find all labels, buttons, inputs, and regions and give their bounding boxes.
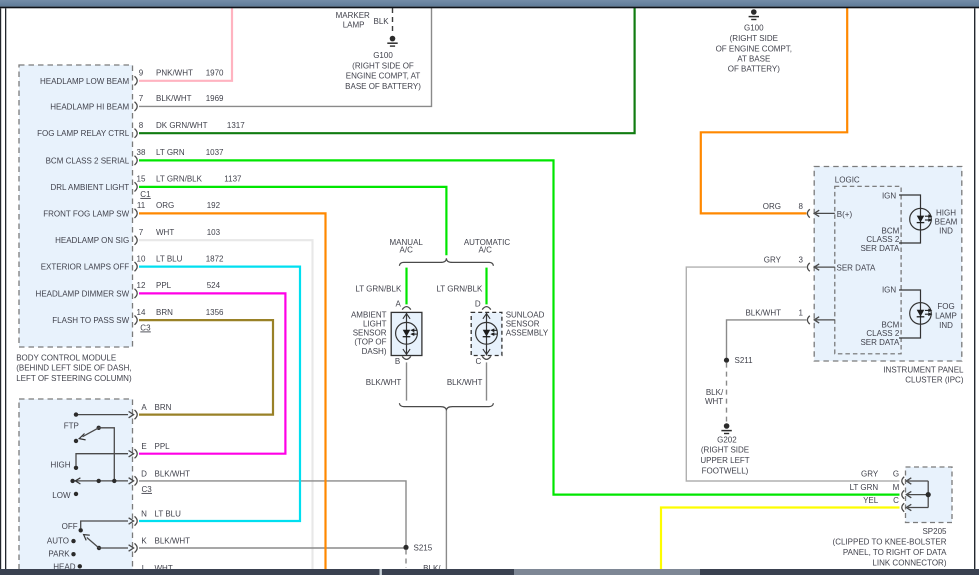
svg-text:A/C: A/C — [479, 246, 493, 255]
svg-text:AMBIENT: AMBIENT — [351, 311, 387, 320]
svg-text:DASH): DASH) — [362, 347, 387, 356]
svg-text:S215: S215 — [414, 543, 433, 552]
svg-text:LT GRN: LT GRN — [850, 483, 879, 492]
svg-text:HEADLAMP LOW BEAM: HEADLAMP LOW BEAM — [40, 77, 130, 86]
svg-text:7: 7 — [139, 228, 144, 237]
svg-text:C3: C3 — [140, 323, 151, 332]
svg-text:FOG: FOG — [937, 302, 954, 311]
svg-text:C3: C3 — [142, 485, 153, 494]
svg-text:(RIGHT SIDE: (RIGHT SIDE — [730, 34, 778, 43]
svg-text:(RIGHT SIDE: (RIGHT SIDE — [701, 446, 749, 455]
svg-text:FLASH TO PASS SW: FLASH TO PASS SW — [52, 316, 129, 325]
svg-text:HEADLAMP DIMMER SW: HEADLAMP DIMMER SW — [36, 289, 130, 298]
svg-text:N: N — [141, 509, 147, 518]
svg-text:SUNLOAD: SUNLOAD — [506, 311, 545, 320]
svg-text:CLUSTER (IPC): CLUSTER (IPC) — [905, 375, 964, 384]
svg-text:BEAM: BEAM — [935, 218, 958, 227]
svg-text:ENGINE COMPT, AT: ENGINE COMPT, AT — [346, 71, 421, 80]
svg-text:LOW: LOW — [52, 491, 71, 500]
svg-text:LIGHT: LIGHT — [363, 320, 387, 329]
svg-text:B(+): B(+) — [837, 210, 853, 219]
svg-text:BLK/WHT: BLK/WHT — [155, 536, 191, 545]
svg-text:10: 10 — [137, 254, 146, 263]
svg-text:LT BLU: LT BLU — [155, 509, 182, 518]
svg-text:ORG: ORG — [763, 202, 781, 211]
svg-text:WHT: WHT — [156, 228, 174, 237]
svg-text:(CLIPPED TO KNEE-BOLSTER: (CLIPPED TO KNEE-BOLSTER — [833, 537, 947, 546]
svg-text:1969: 1969 — [206, 94, 224, 103]
svg-text:GRY: GRY — [764, 256, 782, 265]
svg-text:M: M — [893, 483, 900, 492]
svg-text:7: 7 — [139, 94, 144, 103]
svg-text:K: K — [141, 536, 147, 545]
svg-text:BLK/: BLK/ — [706, 388, 724, 397]
svg-text:WHT: WHT — [705, 397, 723, 406]
svg-text:G100: G100 — [744, 23, 764, 32]
svg-text:FRONT FOG LAMP SW: FRONT FOG LAMP SW — [43, 209, 129, 218]
svg-text:A: A — [396, 300, 402, 309]
svg-text:BRN: BRN — [156, 308, 173, 317]
svg-text:DK GRN/WHT: DK GRN/WHT — [156, 121, 208, 130]
svg-text:BRN: BRN — [155, 403, 172, 412]
svg-text:D: D — [475, 300, 481, 309]
svg-text:FOOTWELL): FOOTWELL) — [702, 466, 749, 475]
svg-text:BLK/WHT: BLK/WHT — [447, 378, 483, 387]
svg-text:FOG LAMP RELAY CTRL: FOG LAMP RELAY CTRL — [37, 129, 130, 138]
svg-text:LOGIC: LOGIC — [835, 175, 860, 184]
svg-text:INSTRUMENT PANEL: INSTRUMENT PANEL — [883, 366, 964, 375]
svg-text:15: 15 — [137, 175, 146, 184]
svg-text:DRL AMBIENT LIGHT: DRL AMBIENT LIGHT — [51, 183, 130, 192]
svg-text:E: E — [141, 442, 146, 451]
svg-text:OF ENGINE COMPT,: OF ENGINE COMPT, — [716, 45, 792, 54]
svg-text:BLK/WHT: BLK/WHT — [745, 309, 781, 318]
svg-text:G100: G100 — [373, 51, 393, 60]
svg-text:PNK/WHT: PNK/WHT — [156, 69, 193, 78]
svg-text:PARK: PARK — [48, 549, 70, 558]
svg-text:8: 8 — [139, 121, 144, 130]
svg-text:1137: 1137 — [224, 175, 242, 184]
svg-text:LT BLU: LT BLU — [156, 254, 183, 263]
svg-text:(RIGHT SIDE OF: (RIGHT SIDE OF — [352, 61, 414, 70]
svg-text:BCM CLASS 2 SERIAL: BCM CLASS 2 SERIAL — [46, 156, 130, 165]
svg-text:EXTERIOR LAMPS OFF: EXTERIOR LAMPS OFF — [41, 263, 130, 272]
svg-text:(BEHIND LEFT SIDE OF DASH,: (BEHIND LEFT SIDE OF DASH, — [16, 364, 131, 373]
svg-text:3: 3 — [798, 256, 803, 265]
svg-text:GRY: GRY — [861, 470, 879, 479]
svg-text:LINK CONNECTOR): LINK CONNECTOR) — [872, 559, 946, 568]
svg-text:G: G — [893, 470, 899, 479]
svg-text:IGN: IGN — [882, 286, 896, 295]
svg-text:IND: IND — [939, 321, 953, 330]
svg-text:IND: IND — [939, 227, 953, 236]
svg-text:CLASS 2: CLASS 2 — [866, 329, 899, 338]
svg-text:1037: 1037 — [206, 148, 224, 157]
svg-text:BCM: BCM — [882, 320, 900, 329]
svg-text:LAMP: LAMP — [935, 311, 957, 320]
svg-text:8: 8 — [798, 202, 803, 211]
svg-text:C: C — [476, 357, 482, 366]
svg-text:PPL: PPL — [156, 281, 172, 290]
svg-text:B: B — [395, 357, 400, 366]
svg-text:LAMP: LAMP — [343, 21, 365, 30]
svg-text:CLASS 2: CLASS 2 — [866, 235, 899, 244]
svg-text:524: 524 — [207, 281, 221, 290]
svg-text:LEFT OF STEERING COLUMN): LEFT OF STEERING COLUMN) — [16, 374, 132, 383]
svg-text:HIGH: HIGH — [936, 209, 956, 218]
svg-text:G202: G202 — [717, 435, 737, 444]
svg-text:SENSOR: SENSOR — [353, 329, 387, 338]
svg-text:ASSEMBLY: ASSEMBLY — [506, 329, 549, 338]
svg-text:BODY CONTROL MODULE: BODY CONTROL MODULE — [16, 353, 116, 362]
svg-text:BCM: BCM — [882, 226, 900, 235]
svg-text:(TOP OF: (TOP OF — [354, 338, 386, 347]
svg-text:AUTO: AUTO — [47, 536, 69, 545]
svg-text:A/C: A/C — [400, 246, 414, 255]
svg-text:S211: S211 — [735, 356, 754, 365]
svg-text:BASE OF BATTERY): BASE OF BATTERY) — [345, 82, 421, 91]
svg-text:FTP: FTP — [64, 422, 79, 431]
svg-text:192: 192 — [207, 201, 221, 210]
svg-text:BLK/WHT: BLK/WHT — [156, 94, 192, 103]
svg-text:1970: 1970 — [206, 69, 224, 78]
svg-text:BLK/WHT: BLK/WHT — [366, 378, 402, 387]
svg-text:UPPER LEFT: UPPER LEFT — [700, 456, 749, 465]
svg-text:OFF: OFF — [62, 522, 78, 531]
svg-text:1872: 1872 — [206, 254, 224, 263]
svg-text:D: D — [141, 469, 147, 478]
svg-text:PPL: PPL — [155, 442, 171, 451]
svg-text:11: 11 — [137, 201, 146, 210]
svg-text:1: 1 — [798, 309, 803, 318]
svg-text:MARKER: MARKER — [336, 11, 370, 20]
svg-text:1356: 1356 — [206, 308, 224, 317]
svg-text:IGN: IGN — [882, 191, 896, 200]
svg-text:LT GRN/BLK: LT GRN/BLK — [156, 175, 203, 184]
svg-text:ORG: ORG — [156, 201, 174, 210]
svg-text:38: 38 — [137, 148, 146, 157]
svg-text:SER DATA: SER DATA — [860, 338, 899, 347]
svg-text:HEADLAMP HI BEAM: HEADLAMP HI BEAM — [50, 102, 129, 111]
svg-text:YEL: YEL — [863, 496, 879, 505]
svg-text:SER DATA: SER DATA — [837, 263, 876, 272]
svg-text:1317: 1317 — [227, 121, 245, 130]
svg-text:BLK: BLK — [374, 17, 390, 26]
svg-text:OF BATTERY): OF BATTERY) — [728, 65, 780, 74]
svg-text:HIGH: HIGH — [51, 461, 71, 470]
svg-text:C: C — [893, 496, 899, 505]
svg-text:A: A — [141, 403, 147, 412]
svg-text:9: 9 — [139, 69, 144, 78]
svg-text:LT GRN/BLK: LT GRN/BLK — [436, 284, 483, 293]
svg-text:HEADLAMP ON SIG: HEADLAMP ON SIG — [55, 236, 129, 245]
svg-text:SENSOR: SENSOR — [506, 320, 540, 329]
svg-text:103: 103 — [207, 228, 221, 237]
svg-text:12: 12 — [137, 281, 146, 290]
svg-text:LT GRN/BLK: LT GRN/BLK — [355, 284, 402, 293]
svg-text:AT BASE: AT BASE — [737, 55, 770, 64]
svg-text:SER DATA: SER DATA — [860, 244, 899, 253]
svg-text:PANEL, TO RIGHT OF DATA: PANEL, TO RIGHT OF DATA — [843, 548, 947, 557]
svg-text:SP205: SP205 — [922, 527, 947, 536]
svg-text:C1: C1 — [140, 190, 151, 199]
svg-text:LT GRN: LT GRN — [156, 148, 185, 157]
svg-text:BLK/WHT: BLK/WHT — [155, 469, 191, 478]
svg-text:14: 14 — [137, 308, 146, 317]
